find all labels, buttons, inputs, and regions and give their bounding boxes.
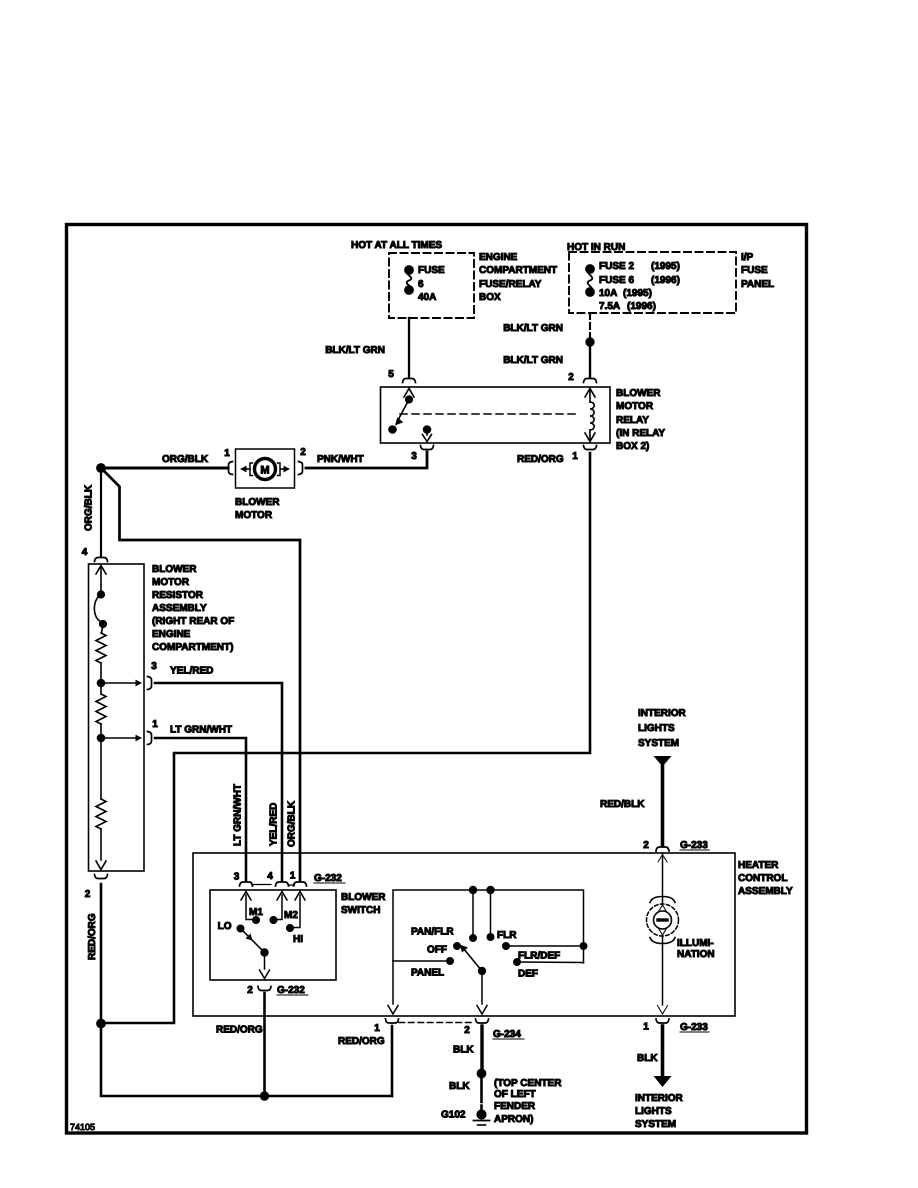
- node: BLK splice: [477, 1069, 486, 1078]
- svg-text:G-232: G-232: [277, 985, 305, 996]
- blower switch LO contact: [237, 925, 244, 932]
- svg-text:NATION: NATION: [677, 949, 715, 960]
- svg-text:FUSE: FUSE: [418, 265, 445, 276]
- svg-text:74105: 74105: [70, 1122, 95, 1132]
- svg-text:FUSE/RELAY: FUSE/RELAY: [479, 279, 542, 290]
- svg-text:LT GRN/WHT: LT GRN/WHT: [170, 725, 232, 736]
- svg-text:HOT AT ALL TIMES: HOT AT ALL TIMES: [351, 240, 442, 251]
- svg-text:ASSEMBLY: ASSEMBLY: [152, 603, 207, 614]
- svg-text:5: 5: [388, 369, 394, 380]
- svg-text:ASSEMBLY: ASSEMBLY: [738, 886, 793, 897]
- svg-text:BLK/LT GRN: BLK/LT GRN: [325, 345, 385, 356]
- svg-text:ENGINE: ENGINE: [479, 252, 518, 263]
- svg-text:FUSE 6: FUSE 6: [599, 275, 634, 286]
- svg-text:LIGHTS: LIGHTS: [635, 1106, 672, 1117]
- off-page arrow: interior lights system (bottom): [654, 1076, 672, 1087]
- node: rail junction PAN/FLR: [469, 886, 476, 893]
- wire YEL/RED: [155, 683, 282, 881]
- fuse 2/6 symbol: [586, 265, 594, 296]
- svg-text:3: 3: [151, 661, 157, 672]
- svg-text:RED/ORG: RED/ORG: [87, 913, 98, 960]
- svg-text:CONTROL: CONTROL: [738, 873, 787, 884]
- mode switch FLR/DEF contact: [503, 943, 510, 950]
- svg-text:SYSTEM: SYSTEM: [635, 1119, 676, 1130]
- relay switch contacts: [389, 389, 432, 442]
- svg-text:G102: G102: [441, 1110, 466, 1121]
- svg-text:APRON): APRON): [494, 1114, 533, 1125]
- blower motor resistor assembly box: [89, 564, 145, 871]
- svg-text:M2: M2: [284, 910, 298, 921]
- mode switch OFF contact: [454, 943, 461, 950]
- resistor R2: [96, 694, 106, 724]
- blower motor M: [236, 449, 295, 488]
- thermal limiter: [94, 591, 106, 633]
- svg-text:I/P: I/P: [741, 252, 754, 263]
- svg-text:COMPARTMENT: COMPARTMENT: [479, 265, 557, 276]
- svg-text:SYSTEM: SYSTEM: [638, 738, 679, 749]
- svg-text:1: 1: [224, 448, 230, 459]
- mode switch DEF contact: [514, 959, 521, 966]
- svg-text:BLK: BLK: [453, 1045, 474, 1056]
- svg-text:3: 3: [411, 451, 417, 462]
- svg-text:RED/BLK: RED/BLK: [600, 799, 645, 810]
- wire BLK to interior lights: [661, 1026, 665, 1076]
- heater control assembly box: [193, 853, 735, 1016]
- relay coil: [585, 389, 595, 442]
- wire BLK/LT GRN from fuse 6 to relay pin 5: [408, 318, 410, 377]
- svg-text:BLK: BLK: [449, 1081, 470, 1092]
- svg-text:YEL/RED: YEL/RED: [269, 803, 280, 846]
- node: ORG/BLK junction: [97, 464, 106, 473]
- svg-text:(1995): (1995): [651, 261, 680, 272]
- svg-text:MOTOR: MOTOR: [235, 510, 273, 521]
- blower switch M2 branch: [270, 892, 287, 924]
- svg-text:ORG/BLK: ORG/BLK: [162, 454, 209, 465]
- wire RED/ORG from resistor pin 2 down: [101, 884, 392, 1096]
- wire RED/ORG up to G-234 pin 1: [391, 1026, 394, 1096]
- wire ORG/BLK down-left branch to resistor pin 4: [100, 470, 102, 556]
- wire RED/BLK: [661, 766, 665, 845]
- lamp output arrow: [658, 1006, 668, 1015]
- node: RED/ORG junction bottom: [260, 1092, 268, 1100]
- fuse 6 40A symbol: [405, 266, 413, 294]
- svg-text:PNK/WHT: PNK/WHT: [317, 454, 364, 465]
- svg-text:RED/ORG: RED/ORG: [338, 1036, 385, 1047]
- mode switch PANEL contact: [393, 960, 447, 962]
- svg-text:1: 1: [572, 451, 578, 462]
- svg-text:(1996): (1996): [651, 275, 680, 286]
- svg-text:BLOWER: BLOWER: [616, 388, 661, 399]
- svg-text:3: 3: [234, 872, 240, 883]
- svg-text:2: 2: [568, 372, 574, 383]
- wire ORG/BLK to blower motor pin 1: [101, 467, 228, 470]
- svg-text:LO: LO: [218, 921, 232, 932]
- svg-text:G-233: G-233: [680, 840, 708, 851]
- svg-text:4: 4: [267, 871, 273, 882]
- svg-text:RESISTOR: RESISTOR: [152, 590, 204, 601]
- svg-text:DEF: DEF: [518, 969, 538, 980]
- blower switch M1 branch: [241, 892, 259, 924]
- illumination lamp: [662, 853, 664, 903]
- svg-text:FUSE: FUSE: [741, 265, 768, 276]
- svg-text:FLR: FLR: [497, 930, 517, 941]
- svg-text:1: 1: [374, 1023, 380, 1034]
- svg-text:MOTOR: MOTOR: [152, 577, 190, 588]
- wire RED/ORG from relay pin 1 down and left: [101, 453, 590, 1023]
- svg-text:PAN/FLR: PAN/FLR: [411, 927, 454, 938]
- svg-text:RED/ORG: RED/ORG: [517, 454, 564, 465]
- resistor R3: [100, 738, 102, 799]
- svg-text:BLOWER: BLOWER: [152, 564, 197, 575]
- svg-text:1: 1: [152, 719, 158, 730]
- svg-text:(1995): (1995): [623, 288, 652, 299]
- blower switch lever: [242, 930, 263, 951]
- fuse box: I/P fuse panel (dashed): [569, 252, 736, 313]
- fuse box: engine compartment fuse/relay box (dashed): [389, 253, 474, 318]
- connector G-234 dashed face: [399, 1022, 475, 1024]
- svg-text:INTERIOR: INTERIOR: [635, 1093, 684, 1104]
- mode switch outputs to G-234: [388, 961, 487, 1014]
- svg-text:BLK/LT GRN: BLK/LT GRN: [503, 323, 563, 334]
- svg-text:1: 1: [290, 871, 296, 882]
- svg-text:10A: 10A: [599, 288, 617, 299]
- svg-text:(1996): (1996): [627, 301, 656, 312]
- svg-text:ORG/BLK: ORG/BLK: [84, 484, 95, 531]
- svg-text:BLK: BLK: [637, 1053, 658, 1064]
- svg-text:OF LEFT: OF LEFT: [494, 1089, 536, 1100]
- svg-text:G-234: G-234: [493, 1029, 521, 1040]
- svg-text:M: M: [260, 465, 269, 477]
- relay: blower motor relay box: [381, 387, 611, 443]
- node: RED/ORG junction left: [97, 1019, 106, 1028]
- resistor assembly outlet to pin 2: [96, 829, 106, 870]
- resistor assembly internal feed: [96, 566, 106, 593]
- svg-text:HEATER: HEATER: [738, 860, 779, 871]
- svg-text:G-233: G-233: [680, 1022, 708, 1033]
- svg-text:2: 2: [300, 447, 306, 458]
- svg-text:FENDER: FENDER: [494, 1101, 536, 1112]
- mode switch PAN/FLR contact: [472, 890, 474, 935]
- blower switch common to pin 2: [260, 953, 270, 979]
- svg-text:G-232: G-232: [314, 873, 342, 884]
- node: rail junction FLR: [487, 886, 494, 893]
- wire RED/ORG from blower switch: [263, 993, 266, 1096]
- blower switch HI branch: [287, 892, 305, 932]
- svg-text:ENGINE: ENGINE: [152, 629, 191, 640]
- svg-text:BOX: BOX: [479, 292, 501, 303]
- svg-text:RELAY: RELAY: [616, 415, 649, 426]
- connector G-232 link lines: [253, 884, 295, 887]
- relay internal dashed link: [400, 413, 580, 415]
- svg-text:INTERIOR: INTERIOR: [638, 708, 687, 719]
- svg-text:SWITCH: SWITCH: [341, 905, 380, 916]
- svg-text:2: 2: [247, 985, 253, 996]
- svg-text:BLK/LT GRN: BLK/LT GRN: [503, 355, 563, 366]
- svg-text:(IN RELAY: (IN RELAY: [616, 428, 665, 439]
- svg-text:1: 1: [643, 1022, 649, 1033]
- svg-text:2: 2: [85, 889, 91, 900]
- svg-text:FLR/DEF: FLR/DEF: [518, 951, 560, 962]
- svg-text:LIGHTS: LIGHTS: [638, 723, 675, 734]
- svg-text:2: 2: [464, 1025, 470, 1036]
- svg-text:PANEL: PANEL: [741, 279, 774, 290]
- svg-text:BLOWER: BLOWER: [341, 892, 386, 903]
- svg-text:ORG/BLK: ORG/BLK: [287, 800, 298, 847]
- svg-text:FUSE 2: FUSE 2: [599, 261, 634, 272]
- blower switch box: [210, 890, 336, 980]
- svg-text:40A: 40A: [418, 292, 436, 303]
- svg-text:OFF: OFF: [427, 945, 447, 956]
- svg-text:YEL/RED: YEL/RED: [170, 666, 213, 677]
- svg-text:RED/ORG: RED/ORG: [216, 1025, 263, 1036]
- svg-text:BLOWER: BLOWER: [235, 497, 280, 508]
- mode switch lever: [478, 967, 485, 974]
- wire BLK to ground: [480, 1078, 483, 1109]
- mode switch FLR contact: [490, 890, 492, 934]
- svg-text:(TOP CENTER: (TOP CENTER: [494, 1078, 562, 1089]
- splice junction on BLK/LT GRN: [586, 338, 594, 346]
- svg-text:MOTOR: MOTOR: [616, 401, 654, 412]
- resistor R1: [96, 633, 106, 663]
- svg-text:(RIGHT REAR OF: (RIGHT REAR OF: [152, 616, 234, 627]
- svg-text:2: 2: [643, 840, 649, 851]
- svg-text:ILLUMI-: ILLUMI-: [677, 938, 714, 949]
- svg-text:M1: M1: [249, 907, 263, 918]
- node: resistor tap 1: [98, 724, 143, 742]
- wire BLK/LT GRN to relay pin 2: [589, 346, 591, 377]
- svg-text:LT GRN/WHT: LT GRN/WHT: [233, 784, 244, 846]
- wire ORG/BLK diagonal branch to heater control: [103, 470, 300, 881]
- wire BLK/LT GRN (dashed) from I/P fuse: [589, 313, 591, 337]
- node: resistor tap 3: [98, 663, 143, 687]
- svg-text:7.5A: 7.5A: [599, 301, 620, 312]
- svg-text:PANEL: PANEL: [411, 968, 444, 979]
- wire BLK to splice: [480, 1026, 483, 1068]
- svg-text:6: 6: [418, 279, 424, 290]
- wire LT GRN/WHT: [155, 738, 246, 881]
- svg-text:4: 4: [82, 547, 88, 558]
- svg-text:HI: HI: [293, 934, 303, 945]
- wire PNK/WHT from motor to relay pin 3: [306, 452, 427, 468]
- svg-text:BOX 2): BOX 2): [616, 441, 649, 452]
- svg-text:COMPARTMENT): COMPARTMENT): [152, 642, 233, 653]
- mode switch feed rail: [393, 890, 584, 963]
